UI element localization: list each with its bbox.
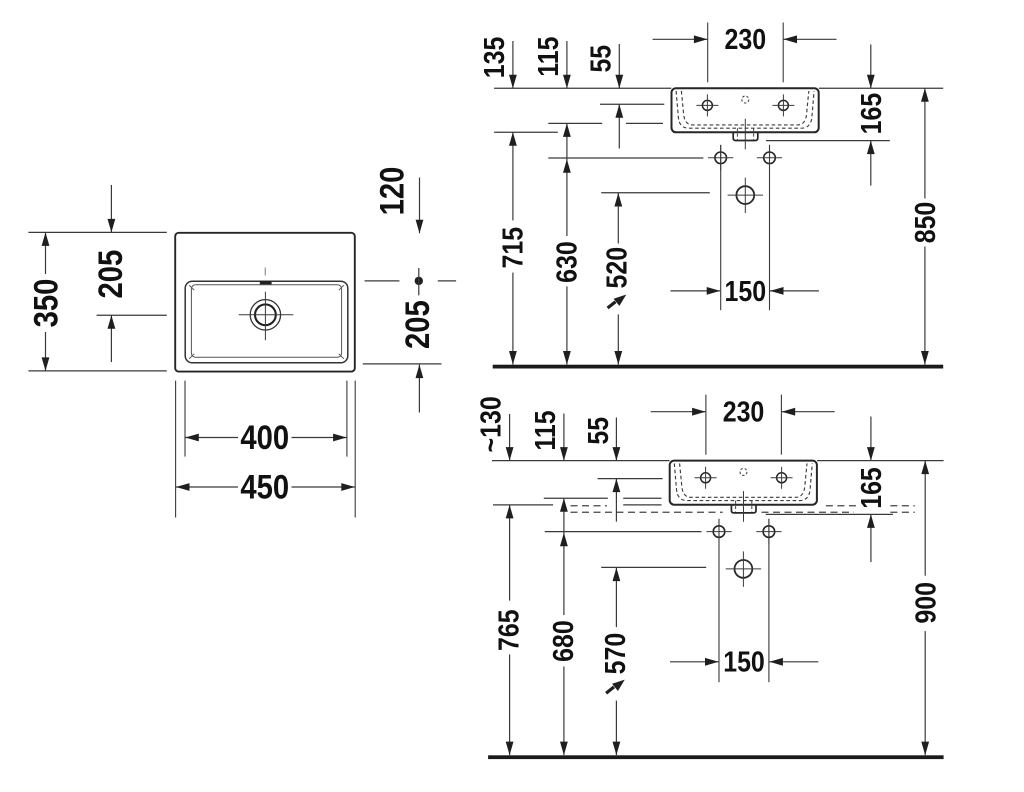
elevation B dim 900 vertical line bbox=[924, 461, 926, 576]
plan view: faucet hole inner circle bbox=[255, 304, 276, 325]
elevation A: drain hidden inner pipe (dashed) bbox=[736, 128, 738, 139]
plan view: overflow slot tick bbox=[260, 281, 272, 284]
drain direction arrow (elevation B) bbox=[612, 680, 625, 691]
svg-text:715: 715 bbox=[497, 227, 529, 269]
elevation B: siphon outlet circle bbox=[735, 560, 753, 578]
elevation B: basin bottom edge extension (~130/765) bbox=[493, 504, 553, 506]
elevation A dim 520 vertical line bbox=[617, 193, 619, 244]
elevation B dim ~130 arrow bbox=[509, 414, 511, 461]
plan view: faucet hole crosshair bbox=[239, 314, 294, 316]
plan view: small center mark above rim bbox=[264, 268, 266, 276]
elevation B: countertop top dashed line bbox=[571, 505, 608, 507]
dimension 350 vertical line with arrows bbox=[45, 232, 47, 274]
elevation A: drain centerline bbox=[744, 119, 746, 150]
elevation B: basin inner bowl hidden edge outer (dashed) bbox=[674, 463, 812, 500]
elevation A: drain outlet fitting bbox=[733, 132, 758, 140]
elevation A dim 55 lower arrow bbox=[618, 104, 620, 148]
elevation A: basin inner bowl hidden edge outer (dashed) bbox=[676, 91, 814, 128]
svg-text:205: 205 bbox=[398, 300, 437, 349]
elevation A: fixing hole height line (630) bbox=[548, 157, 703, 159]
elevation B: fixing hole height line (680) bbox=[545, 531, 702, 533]
elevation A: right tap hole with crosshair bbox=[778, 100, 788, 110]
dimension 450 line with arrows bbox=[176, 486, 238, 488]
dimension 120 arrow bbox=[419, 178, 421, 234]
elevation A dim 55 arrow bbox=[618, 44, 620, 88]
plan view: rim corner chamfer ticks bbox=[189, 285, 194, 290]
dimension 205 left arrows bbox=[110, 185, 112, 232]
elevation B: tap hole height line (55) bbox=[598, 478, 663, 480]
svg-text:~130: ~130 bbox=[475, 396, 507, 452]
svg-text:230: 230 bbox=[723, 396, 765, 428]
svg-text:165: 165 bbox=[855, 467, 887, 509]
svg-text:55: 55 bbox=[585, 45, 617, 73]
svg-text:115: 115 bbox=[529, 410, 561, 450]
elevation B: drain centerline bbox=[743, 491, 745, 522]
svg-text:55: 55 bbox=[582, 417, 614, 445]
svg-text:120: 120 bbox=[373, 167, 412, 216]
plan dim: top extension line bbox=[28, 231, 166, 233]
dimension 205 right: lower extension line and arrow bbox=[363, 363, 442, 365]
plan dim: bottom extension line bbox=[28, 370, 166, 372]
svg-text:520: 520 bbox=[601, 247, 633, 289]
svg-text:450: 450 bbox=[240, 468, 289, 507]
elevation A: siphon outlet circle bbox=[736, 186, 754, 204]
svg-text:400: 400 bbox=[240, 418, 289, 457]
elevation B dim 230: arrows bbox=[651, 411, 706, 413]
elevation B: drain bottom line (165) bbox=[766, 513, 893, 515]
elevation A dim 230: arrows bbox=[653, 38, 708, 40]
elevation A dim 165 arrows bbox=[870, 45, 872, 89]
elevation A dim 150: extension lines bbox=[720, 145, 722, 310]
svg-text:150: 150 bbox=[725, 275, 767, 307]
elevation B: drain outlet fitting bbox=[731, 505, 756, 513]
elevation B: left tap hole with crosshair bbox=[701, 473, 711, 483]
rim-top extension line with junction dot bbox=[365, 280, 400, 282]
plan view: faucet hole outer circle bbox=[250, 300, 280, 330]
svg-text:135: 135 bbox=[478, 37, 510, 79]
svg-text:230: 230 bbox=[725, 23, 767, 55]
elevation A: right fixing hole with crosshair bbox=[764, 152, 776, 164]
dim 400 extension lines bbox=[184, 381, 186, 457]
elevation B: left fixing hole with crosshair bbox=[713, 526, 725, 538]
elevation B: right fixing hole with crosshair bbox=[763, 526, 775, 538]
elevation B: drain hidden inner pipe (dashed) bbox=[735, 501, 737, 512]
plan view: basin rim inner edge bbox=[191, 285, 341, 357]
drain direction arrow (elevation A) bbox=[608, 302, 616, 308]
elevation B dim 680/115 vertical line bbox=[563, 498, 565, 615]
elevation A: overflow hole (dashed circle) bbox=[742, 96, 749, 103]
elevation A: floor line bbox=[493, 365, 944, 369]
elevation B dim 570 vertical line bbox=[615, 568, 617, 628]
elevation A: drain bottom line (165) bbox=[766, 140, 890, 142]
elevation B: basin inner bowl hidden edge inner (dashed) bbox=[680, 463, 807, 497]
svg-text:570: 570 bbox=[599, 633, 631, 675]
elevation A: basin inner bowl hidden edge inner (dashed) bbox=[681, 91, 808, 125]
elevation B dim 165 arrows bbox=[870, 417, 872, 461]
svg-text:115: 115 bbox=[532, 36, 564, 76]
elevation A: basin profile outline bbox=[672, 88, 819, 132]
svg-text:630: 630 bbox=[551, 241, 583, 283]
svg-text:680: 680 bbox=[547, 620, 579, 662]
elevation A dim 115 arrow bbox=[566, 41, 568, 88]
elevation B: countertop bottom dashed line bbox=[571, 511, 723, 513]
elevation B dim 55 lower arrow bbox=[615, 479, 617, 522]
svg-text:900: 900 bbox=[910, 582, 942, 624]
svg-text:850: 850 bbox=[909, 202, 941, 244]
elevation B dim 115 arrow bbox=[563, 414, 565, 461]
elevation B: basin profile outline bbox=[670, 461, 817, 505]
elevation B dim 150: arrows bbox=[670, 661, 719, 663]
svg-text:765: 765 bbox=[493, 609, 525, 651]
elevation B: overflow hole (dashed circle) bbox=[740, 468, 747, 475]
elevation A: basin inner depth line (115) bbox=[548, 122, 602, 124]
elevation B dim 150: extension lines bbox=[718, 519, 720, 682]
elevation B: top reference line bbox=[492, 460, 670, 462]
elevation B: right tap hole with crosshair bbox=[777, 473, 787, 483]
elevation B dim 55 arrow bbox=[615, 418, 617, 461]
elevation B: floor line bbox=[488, 755, 943, 759]
plan view: washbasin outer body 450x350 bbox=[175, 233, 355, 372]
elevation A: siphon height line (520) bbox=[601, 192, 710, 194]
elevation B dim 230: extension lines bbox=[705, 395, 707, 455]
elevation A dim 715/135 vertical line bbox=[512, 132, 514, 220]
elevation A dim 630/115 vertical line bbox=[566, 123, 568, 236]
plan view: basin rim outer edge bbox=[185, 281, 348, 363]
elevation A dim 135 arrow bbox=[512, 41, 514, 88]
dim 450 extension lines bbox=[175, 381, 177, 518]
svg-text:350: 350 bbox=[26, 279, 65, 328]
elevation A dim 150: arrows bbox=[671, 290, 721, 292]
elevation A: tap hole height line (55) bbox=[600, 103, 664, 105]
plan dim: faucet-center extension line bbox=[97, 314, 167, 316]
svg-text:205: 205 bbox=[91, 250, 130, 299]
dimension 400 line with arrows bbox=[185, 437, 238, 439]
svg-text:165: 165 bbox=[855, 93, 887, 135]
elevation A dim 850 vertical line bbox=[924, 88, 926, 198]
elevation A dim 230: extension lines bbox=[707, 23, 709, 83]
elevation B: basin inner depth line (115) bbox=[544, 497, 608, 499]
elevation B: siphon height line (570) bbox=[601, 566, 706, 568]
elevation A: basin bottom edge extension (135/715) bbox=[494, 131, 558, 133]
elevation A: wall reference line bbox=[494, 87, 671, 89]
elevation A: left tap hole with crosshair bbox=[702, 100, 712, 110]
elevation B dim 765/~130 vertical line bbox=[509, 505, 511, 601]
elevation A: left fixing hole with crosshair bbox=[715, 152, 727, 164]
svg-text:150: 150 bbox=[723, 646, 765, 678]
